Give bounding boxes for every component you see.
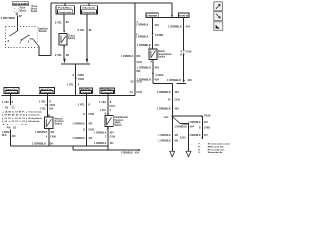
hot-feed header box (12, 2, 29, 6)
svg-text:434: 434 (187, 78, 192, 82)
arrow onto pcm line (183, 80, 185, 83)
svg-text:Block: Block (20, 9, 27, 12)
svg-text:C400: C400 (78, 73, 85, 77)
column3 labels (72, 103, 94, 141)
branch to splice P100 right (172, 115, 202, 117)
connector C140B (152, 33, 164, 37)
svg-text:1 ORN/BLK: 1 ORN/BLK (175, 127, 188, 129)
crank label 2 (137, 43, 159, 47)
svg-text:1 ORN/BLK: 1 ORN/BLK (136, 25, 149, 27)
svg-text:1 YEL: 1 YEL (78, 103, 86, 107)
svg-text:A: A (72, 73, 74, 77)
wire pnp feed column (86, 14, 88, 59)
fuse bus line top right (146, 17, 189, 19)
fuse block note text (31, 6, 38, 13)
svg-text:Detail: Detail (31, 10, 38, 13)
svg-text:C406: C406 (50, 135, 56, 138)
svg-text:C105: C105 (137, 82, 143, 84)
svg-text:Starter: Starter (158, 50, 166, 53)
svg-text:1 ORN/: 1 ORN/ (2, 132, 10, 134)
svg-text:C105: C105 (174, 100, 180, 102)
svg-text:+ A B C D E F +: + A B C D E F + (2, 111, 28, 114)
svg-text:1 YEL: 1 YEL (99, 100, 107, 104)
svg-text:Module: Module (28, 121, 40, 123)
svg-text:434: 434 (186, 25, 191, 29)
svg-text:1 ORN/BLK: 1 ORN/BLK (168, 25, 182, 29)
svg-text:P .: P . (198, 144, 201, 146)
svg-text:Connector: Connector (59, 11, 72, 14)
svg-text:P100: P100 (204, 114, 211, 118)
mid connector box 3 (79, 88, 93, 94)
svg-text:1 ORN/BLK: 1 ORN/BLK (137, 77, 151, 81)
svg-text:HOT IN START: HOT IN START (13, 2, 29, 5)
bus2 end arrow (138, 149, 140, 151)
svg-text:C414: C414 (110, 136, 116, 139)
corner wire to splice column (153, 83, 173, 116)
svg-text:2 YEL: 2 YEL (55, 20, 63, 24)
wire ign e lower (183, 55, 185, 80)
svg-text:Transmission: Transmission (208, 144, 231, 146)
pnp switch box (105, 115, 113, 126)
svg-text:1 ORN/BLK: 1 ORN/BLK (158, 135, 171, 137)
fuse box right (179, 13, 190, 18)
wire right drop (201, 116, 203, 137)
label 2 YEL 86 (55, 20, 69, 24)
connector C140A (152, 73, 164, 77)
svg-text:BLK: BLK (2, 135, 7, 137)
bus2 left extension (73, 149, 108, 151)
svg-text:Connector: Connector (102, 91, 113, 94)
svg-text:C125: C125 (136, 92, 142, 94)
svg-text:G103: G103 (180, 137, 186, 139)
svg-text:CRANK: CRANK (147, 15, 159, 18)
svg-text:Connector: Connector (41, 91, 52, 94)
label below temp switch (137, 66, 159, 70)
svg-text:Switch: Switch (208, 151, 224, 154)
svg-text:C40B: C40B (204, 127, 210, 130)
svg-text:2P: 2P (19, 14, 22, 18)
svg-text:+ + - - - - + +: + + - - - - + + (2, 124, 28, 126)
icon expand ne (214, 2, 223, 11)
svg-text:Switch: Switch (55, 122, 63, 125)
wire center drop (75, 64, 77, 96)
icon corner (214, 22, 223, 31)
splice P100 (75, 77, 85, 81)
svg-text:( P R N D 3 2 ): ( P R N D 3 2 ) (2, 115, 27, 117)
bus2 lower (108, 149, 139, 151)
ground branch labels (158, 123, 194, 142)
svg-text:1 ORN/BLK: 1 ORN/BLK (121, 56, 134, 58)
label 1 YEL 5 (67, 83, 80, 87)
svg-text:Connector: Connector (6, 91, 17, 94)
svg-text:Park/Neu: Park/Neu (58, 8, 73, 10)
fuse block label (20, 7, 27, 13)
svg-text:Switch: Switch (68, 37, 76, 40)
pnp switch label (114, 116, 128, 127)
clutch switch label (68, 35, 76, 41)
svg-text:C140B: C140B (155, 33, 163, 37)
svg-text:Position: Position (208, 148, 226, 151)
svg-text:1 ORN/BLK: 1 ORN/BLK (32, 142, 46, 146)
column4 lower labels (94, 132, 116, 145)
arrow into neutral position switch (48, 115, 50, 117)
svg-text:1 YEL: 1 YEL (39, 99, 47, 103)
svg-text:1 ORN/BLK: 1 ORN/BLK (188, 122, 201, 124)
svg-text:1 ORN/BLK: 1 ORN/BLK (157, 107, 171, 111)
connector C10B inline (180, 50, 191, 57)
ign e label (168, 25, 190, 29)
svg-text:Transmission: Transmission (28, 112, 42, 114)
column2 labels (39, 99, 56, 110)
svg-text:Relay/Seat: Relay/Seat (28, 117, 42, 120)
svg-text:Park Neut: Park Neut (102, 88, 113, 91)
feed drop arrow top right (171, 3, 173, 17)
transmission range legend (2, 111, 42, 126)
wire from ignition switch to riser (33, 39, 39, 46)
svg-text:1 ORN/BLK: 1 ORN/BLK (157, 90, 171, 94)
svg-text:434: 434 (155, 66, 160, 70)
icon expand se (214, 12, 223, 21)
svg-text:Temperature: Temperature (158, 53, 172, 56)
ground arrow right (186, 151, 191, 157)
svg-text:1 ORN/BLK: 1 ORN/BLK (35, 132, 48, 134)
temperature switch box (149, 49, 157, 60)
svg-text:2 YEL: 2 YEL (78, 28, 86, 32)
wire clutch column lower (63, 45, 65, 58)
wire dashed from fuse block (14, 5, 16, 12)
svg-text:1 ORN/BLK: 1 ORN/BLK (72, 138, 85, 140)
mid connector box 1 (4, 88, 19, 95)
connector box clutch feed (56, 3, 74, 14)
svg-text:C140A: C140A (156, 73, 164, 77)
label 2 YEL 85 (55, 53, 70, 57)
svg-text:1 ORN/BLK: 1 ORN/BLK (72, 123, 85, 125)
svg-text:Neut Pos: Neut Pos (81, 88, 92, 91)
mid connector box 4 (100, 88, 115, 94)
svg-text:1 YEL: 1 YEL (67, 83, 75, 87)
riser labels (121, 21, 149, 94)
right drop end arrow (201, 137, 203, 140)
column1 labels (2, 100, 15, 109)
column2 lower wire (48, 129, 50, 147)
svg-text:1 ORN/BLK: 1 ORN/BLK (137, 43, 151, 47)
svg-text:434: 434 (155, 77, 160, 81)
svg-text:IGN E: IGN E (179, 16, 190, 18)
svg-text:434: 434 (174, 90, 179, 94)
column3 wire (86, 94, 88, 146)
svg-text:1 YEL: 1 YEL (2, 100, 10, 104)
arrow terminal B C400 (86, 59, 89, 64)
svg-text:Trans Ctrl: Trans Ctrl (6, 88, 18, 91)
svg-text:1 ORN/BLK: 1 ORN/BLK (94, 133, 107, 135)
column1 lower wire (10, 130, 12, 147)
svg-text:G: G (83, 114, 85, 116)
ground arrow left (170, 151, 175, 157)
column1 wire labels (2, 132, 16, 138)
svg-text:C407: C407 (109, 105, 115, 108)
label A C400 (72, 73, 84, 77)
svg-text:434: 434 (174, 107, 179, 111)
wire into ignition switch (16, 14, 19, 15)
ignition switch dashed box (6, 26, 38, 47)
svg-text:C100: C100 (137, 62, 143, 64)
splice P100 right (201, 114, 211, 118)
svg-text:434: 434 (154, 43, 159, 47)
svg-text:1 YEL: 1 YEL (40, 108, 47, 110)
node below neutral switch (48, 129, 49, 130)
svg-text:D .: D . (198, 152, 201, 154)
svg-text:C10B: C10B (186, 52, 192, 54)
arrow into clutch switch (63, 31, 65, 33)
pcm stub line (177, 83, 186, 85)
ground wire left (171, 117, 173, 152)
arrow C407 (107, 104, 108, 106)
svg-text:1 ORN/BLK: 1 ORN/BLK (167, 78, 181, 82)
connector box pnp feed (80, 3, 97, 14)
splice column labels (157, 90, 181, 110)
column1 stub (10, 94, 12, 106)
svg-text:1 ORN/BLK: 1 ORN/BLK (188, 135, 201, 137)
svg-text:Switch: Switch (39, 29, 48, 33)
connector line C400 (61, 63, 90, 65)
wire dashed second (18, 5, 20, 12)
wire crank column (152, 18, 154, 34)
svg-text:434: 434 (154, 23, 159, 27)
mid bus wire (2, 94, 135, 96)
arrow terminal A C400 (63, 59, 66, 64)
connector symbol node (16, 13, 18, 15)
wire below temp switch (152, 60, 154, 84)
svg-text:Connector: Connector (82, 11, 95, 14)
feed riser right (134, 3, 136, 95)
svg-text:Switch: Switch (158, 55, 166, 58)
arrow into pnp switch (107, 113, 109, 115)
temperature switch label (158, 50, 172, 58)
bus2 stub to bus1 (72, 146, 74, 150)
column4 labels (99, 100, 116, 115)
bus2 label (121, 151, 140, 154)
fuse box left (146, 13, 158, 18)
svg-text:1 ORN/BLK: 1 ORN/BLK (136, 37, 149, 39)
bus1 lower (11, 145, 109, 147)
column4 lower wire (107, 127, 109, 151)
node below clutch switch (63, 46, 64, 47)
svg-text:Park/Neutral: Park/Neutral (114, 116, 128, 119)
svg-text:( O + O O + O ): ( O + O O + O ) (2, 121, 27, 123)
svg-text:( O O + O O O ): ( O O + O O O ) (2, 118, 27, 120)
svg-text:N .: N . (198, 149, 201, 151)
position labels (7, 128, 17, 130)
svg-text:Neut Pos: Neut Pos (41, 88, 53, 91)
svg-text:2 YEL: 2 YEL (55, 53, 63, 57)
neutral position switch box (45, 117, 54, 129)
label above corner (137, 77, 159, 81)
wire ign e column (183, 17, 185, 49)
label 2 YEL 85 second (78, 28, 93, 32)
crank label 1 (154, 23, 159, 27)
svg-text:C408: C408 (49, 104, 55, 107)
svg-text:Neutral: Neutral (208, 146, 225, 149)
svg-text:1 ORN/BLK: 1 ORN/BLK (158, 140, 171, 142)
svg-text:Switch: Switch (114, 124, 122, 127)
column4 stub (107, 94, 109, 116)
splice S105 (164, 116, 174, 119)
svg-text:1 ORN/BLK: 1 ORN/BLK (94, 143, 107, 145)
neutral position switch label (55, 117, 65, 125)
svg-text:Control: Control (28, 114, 40, 117)
svg-text:Position: Position (114, 119, 124, 122)
svg-text:1 ORN/BLK: 1 ORN/BLK (137, 66, 151, 70)
wire clutch column upper (63, 14, 65, 31)
wire into temp switch (152, 36, 154, 49)
column2 stub (47, 94, 49, 117)
clutch switch box (59, 34, 67, 45)
svg-text:P100: P100 (78, 77, 85, 81)
right legend block (198, 144, 231, 155)
ignition switch contacts (8, 30, 33, 44)
bus1 label (32, 142, 53, 146)
svg-text:1 ORN/BLK: 1 ORN/BLK (121, 152, 134, 154)
ignition switch label (39, 27, 49, 34)
svg-text:1 YEL: 1 YEL (100, 110, 107, 112)
branch diagonal to right ground (172, 117, 180, 124)
riser wire to top feed (50, 3, 52, 55)
svg-text:C408: C408 (88, 113, 94, 116)
column2 lower labels (35, 131, 57, 138)
mid connector box 2 (39, 88, 54, 95)
svg-text:Clutch: Clutch (82, 7, 97, 10)
svg-text:5 WHT/RED: 5 WHT/RED (1, 16, 15, 20)
svg-text:C406: C406 (88, 129, 94, 132)
top feed wire (51, 2, 172, 4)
right drop labels (188, 121, 210, 137)
svg-text:P/N: P/N (7, 128, 11, 130)
svg-text:R .: R . (198, 147, 201, 149)
